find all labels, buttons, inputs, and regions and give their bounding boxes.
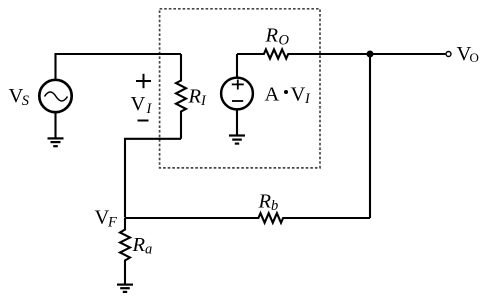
resistor R_I — [176, 54, 186, 139]
ground (dependent source) — [229, 136, 245, 144]
terminal V_O open circle — [446, 52, 451, 57]
svg-text:R: R — [265, 25, 279, 47]
svg-text:O: O — [470, 50, 479, 65]
node junction dot — [367, 51, 374, 58]
resistor R_b with feedback wire — [125, 213, 370, 223]
svg-text:I: I — [146, 101, 153, 117]
dependent source A*V_I — [236, 54, 238, 78]
svg-text:R: R — [132, 234, 146, 256]
minus inside dependent source — [232, 100, 243, 102]
resistor R_a — [120, 218, 130, 285]
V_I plus sign — [136, 74, 151, 88]
wire: output node down to feedback — [369, 54, 371, 218]
wire: dependent source bottom to ground — [236, 109, 238, 135]
svg-text:F: F — [107, 214, 117, 230]
svg-text:O: O — [279, 33, 290, 49]
ground (R_a) — [117, 285, 133, 292]
wire: V_S top to R_I top — [56, 54, 182, 79]
svg-text:b: b — [271, 198, 278, 214]
amplifier model dashed box — [160, 9, 320, 168]
plus inside dependent source — [232, 80, 244, 90]
wire: V_S bottom to ground — [54, 113, 56, 139]
ground (V_S) — [48, 138, 64, 146]
svg-text:R: R — [258, 191, 272, 213]
svg-text:V: V — [291, 84, 306, 106]
svg-text:S: S — [22, 93, 30, 109]
svg-text:I: I — [304, 91, 311, 107]
svg-text:A: A — [265, 84, 280, 106]
source V_S — [39, 80, 71, 112]
sine wave inside V_S — [45, 92, 68, 101]
wire: R_I bottom to V_F node — [125, 139, 181, 218]
svg-text:I: I — [200, 93, 207, 109]
svg-text:V: V — [131, 93, 146, 115]
svg-text:a: a — [145, 242, 152, 258]
V_I minus sign — [138, 120, 149, 122]
svg-text:R: R — [188, 86, 202, 108]
resistor R_O — [237, 49, 445, 58]
